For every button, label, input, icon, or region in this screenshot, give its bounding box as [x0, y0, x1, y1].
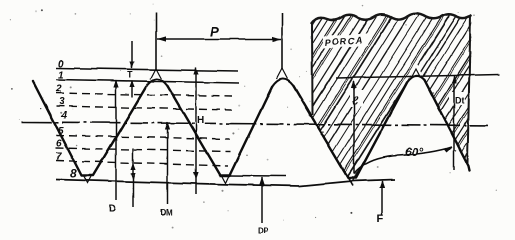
svg-text:H: H	[197, 115, 204, 126]
svg-text:2: 2	[55, 84, 62, 95]
svg-text:F: F	[377, 213, 384, 225]
svg-text:0: 0	[58, 59, 64, 70]
svg-text:Dt: Dt	[455, 96, 465, 106]
svg-text:6: 6	[56, 139, 62, 150]
svg-text:P: P	[210, 23, 220, 39]
svg-text:DP: DP	[258, 227, 269, 236]
svg-text:5: 5	[58, 126, 64, 137]
svg-text:DM: DM	[161, 209, 173, 218]
svg-text:8: 8	[70, 167, 77, 181]
svg-text:1: 1	[58, 70, 64, 81]
svg-text:60°: 60°	[405, 145, 423, 159]
svg-text:D: D	[109, 204, 116, 215]
svg-text:7: 7	[56, 152, 62, 163]
svg-text:3: 3	[59, 97, 65, 108]
svg-text:ℓ: ℓ	[352, 94, 359, 108]
svg-text:T: T	[128, 70, 134, 80]
